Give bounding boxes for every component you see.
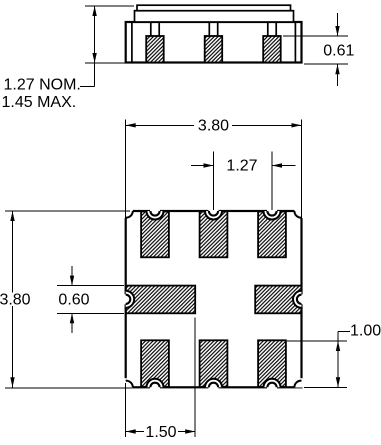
lead 3 neck lines — [267, 23, 269, 37]
castellation bottom 2 — [205, 379, 222, 390]
package outline (bottom view) — [126, 211, 302, 387]
lid top plate — [137, 5, 291, 11]
dimension 1.27 NOM / 1.45 MAX (side view height) — [80, 6, 134, 87]
svg-text:0.60: 0.60 — [58, 292, 89, 309]
lid lower step — [135, 11, 294, 22]
castellation top 1 — [147, 209, 164, 220]
lead 2 neck lines — [208, 23, 210, 37]
svg-text:1.27 NOM.: 1.27 NOM. — [4, 77, 81, 94]
pad 5 bottom-center (hatched) — [200, 340, 228, 387]
dimension 3.80 left (bottom view height) — [5, 211, 130, 388]
svg-text:3.80: 3.80 — [0, 292, 31, 309]
svg-text:1.45 MAX.: 1.45 MAX. — [2, 94, 77, 111]
lead 1 neck lines — [150, 23, 152, 37]
pad 7 middle-right (hatched) — [255, 286, 301, 314]
lead 1 (hatched) — [146, 36, 164, 63]
svg-text:1.00: 1.00 — [350, 323, 381, 340]
pad 8 middle-left (hatched) — [126, 286, 196, 314]
left end-wall line — [131, 22, 133, 63]
castellation bottom 3 — [264, 379, 281, 390]
corner notch top-right — [294, 209, 303, 218]
right end-wall line — [294, 22, 296, 63]
dimension 1.27 (pad pitch) — [191, 152, 296, 211]
castellation top 3 — [264, 209, 281, 220]
castellation top 2 — [205, 209, 222, 220]
castellation right-middle — [293, 291, 304, 308]
dimension 1.00 (pad length) — [287, 332, 350, 388]
pad 4 bottom-right (hatched) — [258, 340, 286, 387]
castellation bottom 1 — [147, 379, 164, 390]
dimension 1.50 (middle-left pad length) — [126, 318, 196, 438]
dimension 0.61 (lead height, side view) — [283, 13, 348, 86]
castellation left-middle — [123, 291, 134, 308]
corner notch bottom-left — [124, 378, 133, 387]
package body (side view) — [126, 22, 302, 63]
lead 3 (hatched) — [263, 36, 281, 63]
svg-text:1.50: 1.50 — [145, 424, 176, 441]
dimension 3.80 top (bottom view width) — [126, 120, 302, 219]
svg-text:3.80: 3.80 — [198, 117, 229, 134]
pad 1 top-left (hatched) — [141, 212, 169, 258]
pad 3 top-right (hatched) — [258, 212, 286, 258]
svg-text:1.27: 1.27 — [226, 158, 257, 175]
pad 6 bottom-left (hatched) — [141, 340, 169, 387]
pad 2 top-center (hatched) — [200, 212, 228, 258]
lead 2 (hatched) — [205, 36, 223, 63]
svg-text:0.61: 0.61 — [323, 42, 354, 59]
dimension 0.60 (middle pad width) — [57, 266, 124, 333]
corner notch bottom-right — [294, 378, 303, 387]
corner notch top-left — [124, 209, 133, 218]
